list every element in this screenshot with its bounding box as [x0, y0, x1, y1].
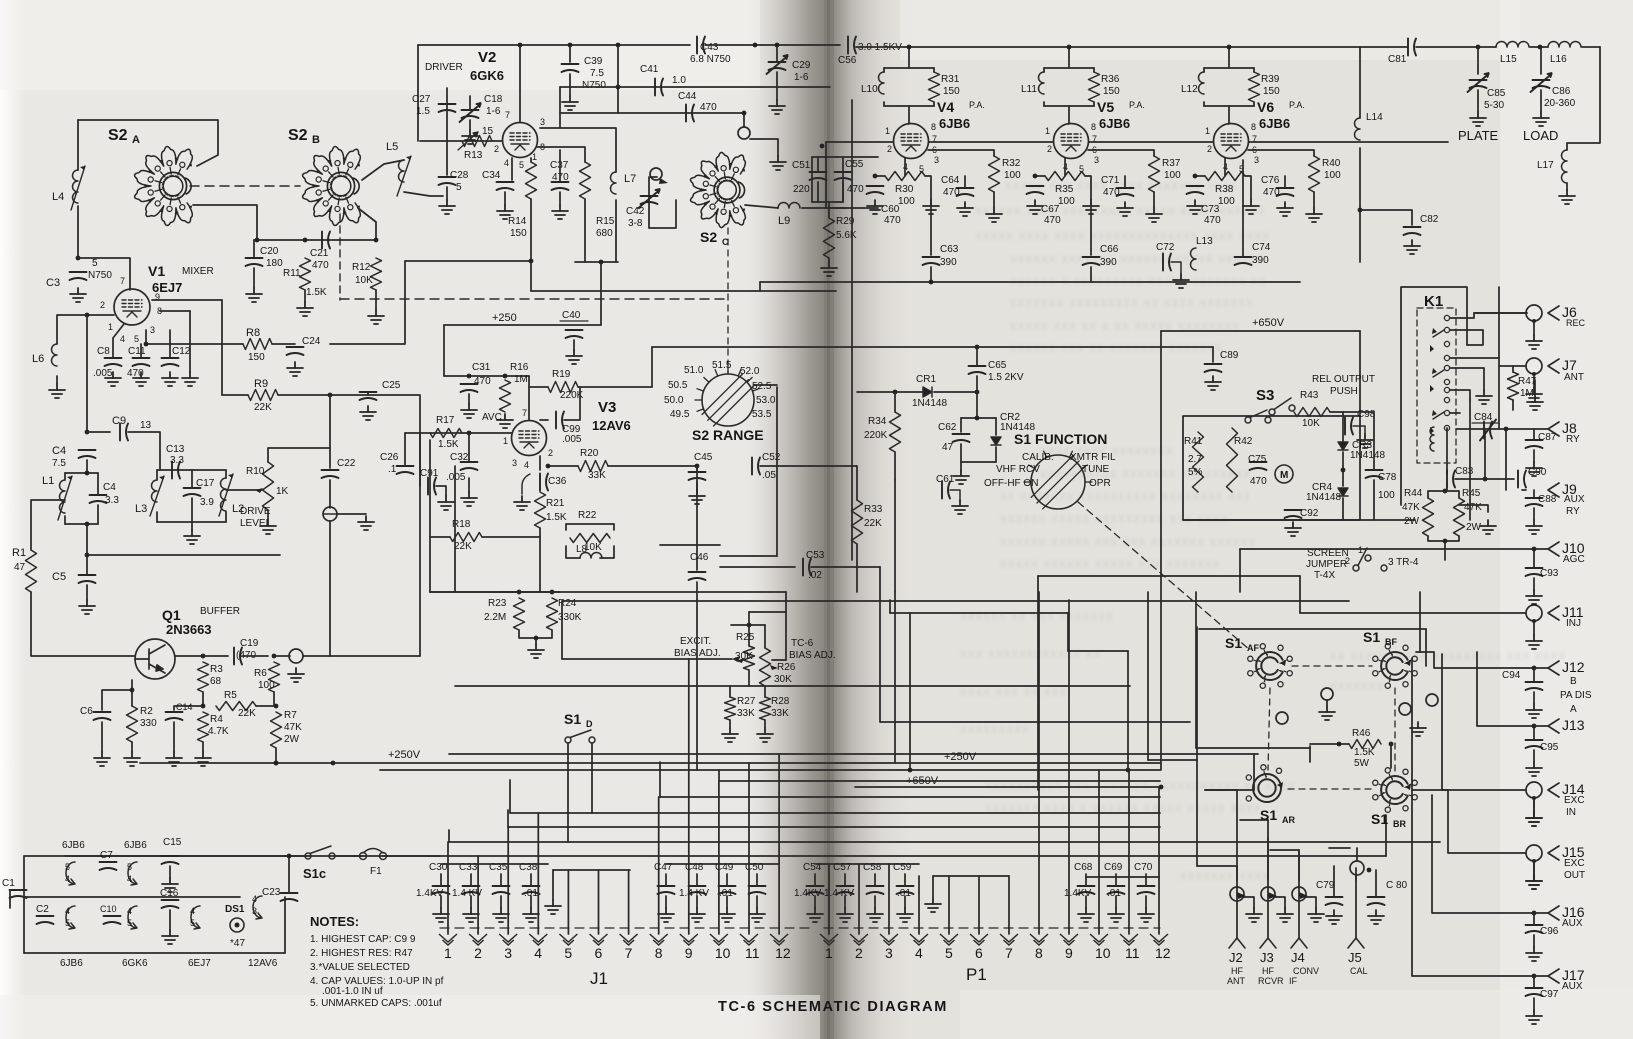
relay contact 6 — [1444, 379, 1449, 384]
ground C82 — [1404, 240, 1420, 254]
wire long col 852 — [851, 100, 853, 560]
wire dashed S2C to dial — [727, 228, 729, 373]
ground Cs V5 — [1117, 202, 1133, 216]
relay contact 3 — [1444, 341, 1449, 346]
connector J9 arrow — [1548, 483, 1559, 497]
relay contact 5 — [1444, 365, 1449, 370]
ground J14 — [1526, 812, 1542, 826]
svg-text:C31: C31 — [472, 362, 491, 373]
capacitor C78 — [1366, 470, 1383, 478]
junction R3 top — [201, 654, 206, 659]
svg-text:100: 100 — [1058, 196, 1075, 207]
wire J5 ft left — [1329, 847, 1350, 849]
wire C26 up — [404, 433, 406, 466]
junction R46 left — [1337, 742, 1342, 747]
capacitor C24 — [287, 347, 304, 355]
wire 282 bus — [760, 281, 1300, 283]
choke right stub2 V5 — [1093, 102, 1095, 106]
S2C terminal arrow — [659, 178, 668, 184]
junction Ck V4 — [873, 174, 878, 179]
resistor R2 — [127, 706, 138, 742]
svg-text:1: 1 — [503, 436, 508, 446]
svg-text:C5: C5 — [52, 571, 66, 583]
svg-text:C12: C12 — [172, 346, 191, 357]
ground C70 — [1138, 908, 1154, 922]
inductor L10 — [879, 72, 884, 94]
wire grid bus c — [1089, 141, 1213, 143]
capacitor C8 — [105, 358, 122, 366]
svg-text:6JB6: 6JB6 — [939, 116, 970, 131]
svg-text:R19: R19 — [552, 369, 571, 380]
capacitor C59 — [897, 886, 914, 894]
relay coil K1 — [1430, 427, 1434, 451]
wire P1 pin 6 column — [978, 876, 980, 934]
ground J14 — [1526, 812, 1542, 826]
wire K1 right col — [1498, 287, 1500, 428]
svg-text:V5: V5 — [1097, 99, 1114, 115]
svg-text:L10: L10 — [861, 84, 878, 95]
rotary switch S2B — [303, 147, 361, 226]
wire bias feed row — [749, 611, 786, 613]
wire C96 dn — [1533, 935, 1535, 947]
bus drop 842 — [448, 830, 450, 842]
ground ft t2 — [1277, 908, 1293, 922]
svg-text:6GK6: 6GK6 — [122, 958, 148, 969]
capacitor C46 — [689, 572, 706, 580]
ground C15 — [162, 878, 178, 892]
wire screen dn V6 — [1313, 192, 1315, 208]
capacitor C9 — [120, 424, 128, 441]
arrow into R10 — [255, 488, 263, 493]
wire R10 gnd — [267, 510, 269, 520]
wire C57 up — [844, 874, 846, 886]
junction CR34 — [1341, 468, 1346, 473]
svg-text:1.5: 1.5 — [416, 106, 430, 117]
svg-text:8: 8 — [1035, 945, 1043, 961]
wire cath to R8 — [146, 343, 243, 345]
wire avc top — [444, 375, 529, 377]
svg-text:1: 1 — [1205, 126, 1210, 136]
wire C30 dn — [440, 896, 442, 908]
wire R11 gnd — [304, 290, 306, 302]
resistor R24 — [547, 598, 558, 630]
wire L2 to R10 — [226, 489, 262, 491]
inductor L1 — [58, 476, 72, 520]
capacitor C3 — [70, 272, 87, 280]
ground R23 R24 — [528, 644, 544, 658]
svg-text:.01: .01 — [1107, 888, 1121, 899]
wire C53 left — [720, 566, 795, 568]
svg-text:PLATE: PLATE — [1458, 128, 1499, 143]
relay K1 dashed box — [1417, 308, 1456, 463]
S3 box — [1183, 416, 1360, 520]
svg-text:R43: R43 — [1300, 390, 1319, 401]
svg-text:L1: L1 — [42, 475, 54, 487]
junction J14 — [1532, 796, 1536, 800]
wire Q1 emitter out — [175, 655, 203, 657]
junction bus 763a — [274, 761, 279, 766]
wire C91 col — [419, 433, 421, 486]
svg-text:C7: C7 — [100, 850, 113, 861]
ground S2C right — [770, 156, 786, 170]
resistor R6 — [269, 662, 280, 692]
capacitor C22 — [322, 470, 339, 478]
svg-text:1N4148: 1N4148 — [912, 398, 947, 409]
connector J17 arrow — [1548, 969, 1559, 983]
svg-text:1N4148: 1N4148 — [1306, 492, 1341, 503]
dial S2 ticks — [695, 367, 759, 411]
svg-text:OFF-HF ON: OFF-HF ON — [984, 478, 1038, 489]
svg-text:AVC: AVC — [482, 412, 502, 423]
choke left stub V6 — [1203, 68, 1205, 72]
diode CR2 1N4148 — [991, 437, 1001, 445]
svg-text:B: B — [312, 134, 320, 146]
ground C25 — [360, 406, 376, 420]
connector J11 arrow — [1548, 606, 1559, 620]
wire C58 dn — [874, 896, 876, 908]
svg-text:5.6K: 5.6K — [836, 230, 857, 241]
svg-text:C45: C45 — [694, 452, 713, 463]
ground C16 — [162, 930, 178, 944]
feedthrough t3 — [1292, 887, 1306, 901]
svg-text:R30: R30 — [895, 184, 914, 195]
wire C24node down — [329, 395, 331, 468]
svg-text:1N4148: 1N4148 — [1350, 450, 1385, 461]
dial S1 FUNCTION — [1031, 455, 1085, 509]
connector J15 jack — [1526, 845, 1542, 861]
wire 790 seg — [1205, 789, 1237, 791]
junction CR1 left — [893, 390, 898, 395]
svg-text:S2: S2 — [288, 127, 308, 144]
capacitor C61 — [942, 482, 950, 499]
svg-text:R31: R31 — [941, 74, 960, 85]
parasitic choke bot V6 — [1204, 105, 1254, 107]
svg-text:4: 4 — [120, 334, 125, 344]
wire top bus mid — [705, 44, 840, 46]
wire C51 top — [812, 156, 878, 158]
svg-text:C22: C22 — [337, 458, 356, 469]
svg-text:R38: R38 — [1215, 184, 1234, 195]
wire C48 dn — [696, 896, 698, 908]
wire R4 dn — [202, 742, 204, 752]
choke left stub V4 — [883, 68, 885, 72]
svg-text:1.5K: 1.5K — [438, 439, 459, 450]
svg-text:220K: 220K — [864, 430, 888, 441]
wire to J12 — [1416, 652, 1548, 668]
connector J15 arrow — [1548, 846, 1559, 860]
junction bus 770 — [1126, 768, 1131, 773]
wire S2C right gnd stub — [750, 139, 778, 156]
svg-text:3: 3 — [512, 458, 517, 468]
junction Ck V5 — [1033, 174, 1038, 179]
capacitor C90 — [1518, 471, 1526, 488]
resistor R4 — [198, 712, 209, 742]
wire S2A top loop — [78, 120, 218, 166]
junction J10 — [1532, 547, 1537, 552]
wire J7 gnd — [1534, 380, 1536, 396]
rotary switch S2A — [135, 147, 193, 226]
svg-text:7: 7 — [1005, 945, 1013, 961]
svg-text:49.5: 49.5 — [670, 409, 690, 420]
wire J1 pin 9 column — [688, 659, 690, 934]
svg-text:2: 2 — [100, 300, 105, 310]
capacitor C2 — [37, 916, 54, 924]
wire R18 left — [430, 536, 450, 538]
diode CR4 1N4148 — [1338, 488, 1348, 496]
svg-text:R12: R12 — [352, 262, 371, 273]
capacitor C31 — [461, 384, 478, 392]
junction plate bus V6 — [1227, 45, 1232, 50]
ground C38 — [523, 908, 539, 922]
wire C40 dn — [573, 340, 575, 350]
wire C9 to C13 tank — [128, 432, 160, 470]
wire R3 dn — [202, 692, 204, 706]
wire J1 pin 12 column — [778, 754, 780, 934]
svg-text:C71: C71 — [1101, 175, 1120, 186]
junction V1 grid — [85, 313, 90, 318]
connector J6 jack — [1526, 305, 1542, 321]
svg-text:TC-6 SCHEMATIC DIAGRAM: TC-6 SCHEMATIC DIAGRAM — [718, 999, 948, 1015]
wire J1 pin 10 column — [718, 781, 720, 934]
wire J14 gnd stub — [1533, 798, 1535, 812]
tank right wire low — [97, 505, 99, 524]
svg-text:220: 220 — [793, 184, 810, 195]
resistor cath V6 — [1205, 172, 1245, 181]
svg-text:L9: L9 — [778, 215, 790, 227]
wire V1 cathode drop — [113, 324, 124, 358]
wire cath drop V6 — [1224, 158, 1226, 176]
wire K1 c9 — [1450, 412, 1460, 414]
junction C23 — [287, 854, 292, 859]
svg-text:5: 5 — [456, 182, 462, 193]
wire caps tie C68-C70 — [1086, 876, 1159, 878]
svg-text:100: 100 — [1004, 170, 1021, 181]
wire cath V3 — [539, 456, 541, 470]
svg-text:C18: C18 — [484, 94, 503, 105]
relay armature arrow2 — [1430, 385, 1434, 392]
svg-text:2: 2 — [1345, 556, 1350, 566]
svg-text:1.0: 1.0 — [672, 75, 686, 86]
junction L14 C82 — [1358, 208, 1363, 213]
capacitor C39 — [562, 64, 579, 72]
svg-text:1-6: 1-6 — [486, 106, 501, 117]
wire J2 col — [1236, 790, 1238, 880]
tube socket s3 — [66, 906, 75, 929]
ground C28 — [439, 200, 455, 214]
svg-text:R21: R21 — [546, 498, 565, 509]
CR2 box right — [995, 418, 997, 435]
wire C32 dn — [468, 478, 470, 492]
ground C89 — [1205, 376, 1221, 390]
svg-text:1.5K: 1.5K — [1354, 747, 1375, 758]
ground C14 — [166, 752, 182, 766]
svg-text:F1: F1 — [370, 866, 382, 877]
R13 variable arrow — [458, 132, 478, 150]
wire C19 right — [242, 655, 268, 657]
svg-text:PUSH: PUSH — [1330, 386, 1358, 397]
wire C29 up — [776, 45, 778, 62]
svg-text:22K: 22K — [254, 402, 272, 413]
wire L4-C3 — [77, 206, 79, 258]
wire R28 link — [764, 686, 766, 697]
svg-text:C72: C72 — [1156, 242, 1175, 253]
svg-text:R44: R44 — [1404, 488, 1423, 499]
C36 hook — [522, 474, 530, 494]
R25 pot arrow — [736, 658, 744, 663]
ground C32 — [461, 492, 477, 506]
svg-text:+250V: +250V — [944, 751, 977, 763]
svg-text:BIAS ADJ.: BIAS ADJ. — [789, 650, 836, 661]
choke left stub2 V6 — [1203, 102, 1205, 106]
resistor cath V5 — [1045, 172, 1085, 181]
parasitic choke bot V4 — [884, 105, 934, 107]
wire P1 pin 10 column — [1098, 770, 1100, 934]
svg-text:R45: R45 — [1462, 488, 1481, 499]
svg-text:AUX: AUX — [1562, 981, 1583, 992]
wire CR1 right — [934, 391, 977, 393]
svg-text:50.5: 50.5 — [668, 380, 688, 391]
parasitic choke top V6 — [1204, 67, 1254, 69]
svg-text:50.0: 50.0 — [664, 395, 684, 406]
capacitor Ck V5 — [1027, 186, 1044, 194]
inductor L8 — [580, 553, 602, 558]
wire +250V line — [140, 762, 1160, 764]
wire grid bus a — [826, 141, 893, 143]
wire bus 842 — [449, 841, 1440, 843]
C61 hook — [950, 490, 960, 500]
svg-text:3: 3 — [504, 945, 512, 961]
svg-text:AGC: AGC — [1563, 554, 1585, 565]
svg-text:1: 1 — [885, 126, 890, 136]
junction V2 plate bus — [518, 43, 523, 48]
wire J6 gnd stub — [1533, 321, 1535, 335]
svg-text:R4: R4 — [210, 714, 223, 725]
feedthrough t2 — [1261, 887, 1275, 901]
wire R15 L7 tie — [575, 261, 618, 263]
junction R44 bot — [1443, 539, 1448, 544]
rotary switch S1BR — [1373, 768, 1418, 813]
parasitic choke top V4 — [884, 67, 934, 69]
vacuum tube V1 6EJ7 — [114, 289, 150, 325]
wire V4 col down — [930, 200, 932, 255]
connector J13 arrow — [1548, 719, 1559, 733]
svg-text:R9: R9 — [254, 378, 268, 390]
capacitor C17 — [184, 488, 201, 496]
wire to L15 — [1416, 46, 1496, 48]
tank2 top — [157, 469, 226, 471]
inductor L5 — [397, 156, 411, 196]
connector J14 arrow — [1548, 783, 1559, 797]
wire C70 up — [1145, 874, 1147, 886]
resistor R9 — [248, 390, 278, 401]
svg-text:47K: 47K — [1402, 502, 1420, 513]
svg-text:J2: J2 — [1229, 950, 1243, 965]
wire C20 stub — [253, 240, 255, 258]
wire block top — [24, 855, 308, 857]
switch S1D — [565, 730, 595, 743]
dial S1F ticks — [1024, 451, 1092, 482]
R26 pot arrow — [770, 665, 778, 670]
svg-text:J4: J4 — [1291, 950, 1305, 965]
capacitor Ck V4 — [867, 186, 884, 194]
ground C95 — [1526, 762, 1542, 776]
ground C88 — [1526, 520, 1542, 534]
wire C51 bot bar — [812, 201, 843, 203]
wire Cs up V6 — [1284, 176, 1286, 188]
svg-text:A: A — [1570, 704, 1577, 715]
wire R6 to bead — [274, 655, 290, 657]
svg-text:R1: R1 — [12, 547, 26, 559]
ground Ck V4 — [867, 200, 883, 214]
svg-text:470: 470 — [1250, 476, 1267, 487]
wire C48 up — [696, 874, 698, 886]
wire L5 out — [404, 192, 443, 196]
wire 1310 col — [1309, 746, 1311, 762]
svg-text:20-360: 20-360 — [1544, 98, 1576, 109]
svg-text:AF: AF — [1247, 643, 1259, 653]
ground L6 — [49, 384, 65, 398]
wire P1 pin 5 column — [948, 876, 950, 934]
svg-text:R40: R40 — [1322, 158, 1341, 169]
relay armature — [1433, 370, 1444, 377]
wire cath right V5 — [1085, 176, 1091, 200]
wire to J7 — [1499, 365, 1526, 367]
capacitor C98 — [1345, 418, 1353, 435]
wire C41 line — [560, 86, 830, 88]
wire 1038 col — [1037, 576, 1039, 790]
wire R9 right — [278, 394, 420, 396]
resistor R22 — [570, 534, 610, 543]
svg-text:68: 68 — [210, 676, 222, 687]
wire S2B bottom row — [254, 239, 376, 241]
wire 1470 col — [1469, 400, 1471, 520]
svg-text:AUX: AUX — [1564, 494, 1585, 505]
svg-text:C44: C44 — [678, 91, 697, 102]
svg-text:C88: C88 — [1538, 494, 1557, 505]
feedthrough t2 arrow — [1268, 892, 1277, 899]
wire tank2 gnd — [191, 522, 193, 530]
svg-text:33K: 33K — [771, 708, 789, 719]
svg-text:R37: R37 — [1162, 158, 1181, 169]
svg-text:1. HIGHEST CAP: C9 9: 1. HIGHEST CAP: C9 9 — [310, 934, 416, 945]
ground J11 — [1526, 635, 1542, 649]
svg-text:C39: C39 — [584, 56, 603, 67]
relay contact 2 — [1444, 327, 1449, 332]
svg-text:A: A — [132, 134, 140, 146]
svg-text:470: 470 — [884, 215, 901, 226]
ground cath V5 — [1083, 200, 1099, 214]
svg-text:4.7K: 4.7K — [208, 726, 229, 737]
resistor R plate V4 — [929, 72, 940, 102]
svg-text:AUX: AUX — [1562, 918, 1583, 929]
wire dial out — [754, 384, 777, 386]
svg-text:5: 5 — [92, 258, 98, 269]
ground C85 — [1470, 112, 1486, 126]
wire C86 up — [1540, 47, 1542, 74]
inductor L12 — [1199, 72, 1204, 94]
inductor L4 — [71, 166, 85, 210]
junction J5 ft — [1367, 868, 1372, 873]
svg-text:100: 100 — [1378, 490, 1395, 501]
svg-text:INJ: INJ — [1566, 618, 1581, 629]
wire stair 1068 — [1067, 613, 1069, 651]
junction C65 — [975, 390, 980, 395]
dial S2 RANGE — [702, 374, 754, 426]
capacitor C6 — [94, 712, 111, 720]
wire V1 grid left — [57, 315, 87, 344]
svg-text:8: 8 — [655, 945, 663, 961]
wire V3 col down — [454, 466, 456, 592]
